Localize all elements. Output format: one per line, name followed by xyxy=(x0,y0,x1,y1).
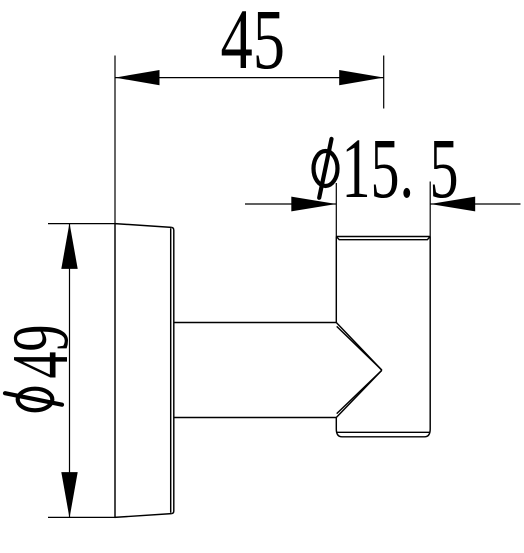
junction chevron upper inner line xyxy=(337,326,382,370)
arrowhead O15.5 right (points left) xyxy=(430,197,475,212)
post top rim line xyxy=(336,236,430,238)
dimension O49 dim line xyxy=(69,224,71,518)
flange right outer edge xyxy=(171,227,173,513)
junction chevron lower main line xyxy=(336,370,382,417)
arrowhead O49 bottom (points down) xyxy=(61,472,77,518)
dimension O49 top extension line xyxy=(48,223,115,225)
diameter symbol of O49 xyxy=(5,389,62,411)
post left edge upper xyxy=(335,237,337,323)
arrowhead 45 right xyxy=(339,70,384,85)
dimension 45 right extension line (post axis) xyxy=(383,56,385,109)
svg-text:45: 45 xyxy=(220,0,284,87)
post bottom outer cap xyxy=(336,429,430,437)
dimension O15.5 dim line right segment xyxy=(430,203,520,205)
post right edge xyxy=(429,237,431,430)
svg-text:49: 49 xyxy=(0,325,85,379)
svg-text:15.: 15. xyxy=(342,121,415,216)
dimension 45 dim line xyxy=(115,77,384,79)
post left edge lower xyxy=(335,418,337,430)
stem bottom line xyxy=(174,417,336,419)
dimension text 45 xyxy=(220,0,284,87)
dimension text O49 (rotated) xyxy=(0,325,85,411)
junction chevron lower inner line xyxy=(337,370,382,413)
post bottom cap line xyxy=(336,431,430,433)
arrowhead 45 left xyxy=(115,70,160,85)
flange top edge xyxy=(115,224,171,228)
junction chevron upper main line xyxy=(336,323,382,371)
dimension text 15. xyxy=(342,121,415,216)
diameter symbol of O15.5 xyxy=(314,139,338,198)
dimension 45 left extension line (wall face) xyxy=(114,56,116,224)
dimension O15.5 right extension line (post right) xyxy=(429,182,431,237)
dimension O49 bottom extension line xyxy=(48,516,115,518)
stem top line xyxy=(174,322,336,324)
flange bottom edge xyxy=(115,514,172,518)
arrowhead O49 top (points up) xyxy=(61,223,77,269)
dimension text 5 xyxy=(430,121,459,216)
post top rim chamfer line xyxy=(337,237,430,240)
svg-text:5: 5 xyxy=(430,121,459,216)
dimension O15.5 left extension line (post left) xyxy=(335,183,337,237)
flange left edge (wall face) xyxy=(114,224,116,518)
dimension O15.5 dim line left segment xyxy=(245,203,336,205)
flange right inner edge xyxy=(170,228,172,513)
arrowhead O15.5 left (points right) xyxy=(291,197,336,212)
